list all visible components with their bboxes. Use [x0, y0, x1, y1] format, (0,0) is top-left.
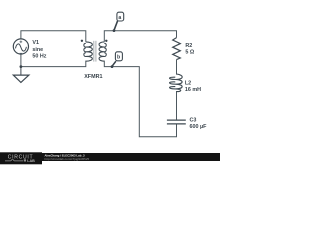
svg-text:R2: R2 — [185, 43, 192, 49]
transformer XFMR1 core — [94, 41, 96, 62]
wire top-left rail V1 to XFMR1 primary — [21, 31, 86, 42]
label C3 value — [190, 117, 208, 130]
transformer XFMR1 primary phase dot — [81, 40, 83, 42]
watermark logo box — [0, 152, 42, 164]
label V1 value — [32, 40, 46, 59]
svg-text:XFMR1: XFMR1 — [84, 74, 102, 80]
svg-text:b: b — [117, 55, 120, 61]
junction ground node — [20, 65, 23, 68]
resistor R2 — [173, 38, 181, 60]
svg-text:http://circuitlab.com/c7jqg9t4: http://circuitlab.com/c7jqg9t45525 — [45, 157, 90, 161]
svg-text:a: a — [118, 15, 121, 21]
ground — [13, 67, 29, 83]
transformer XFMR1 secondary coil — [99, 42, 106, 62]
label L2 value — [185, 80, 201, 93]
voltage source V1 — [13, 39, 28, 54]
svg-text:sine: sine — [32, 47, 43, 53]
svg-text:LAB: LAB — [27, 159, 35, 163]
watermark logo CIRCUIT LAB — [5, 155, 35, 164]
wire L2 to C3 — [176, 91, 178, 120]
svg-text:50 Hz: 50 Hz — [32, 54, 46, 60]
wire top-right rail XFMR1 secondary to R2 — [104, 31, 176, 42]
svg-text:V1: V1 — [32, 40, 39, 46]
inductor L2 — [170, 74, 183, 92]
svg-text:5 Ω: 5 Ω — [185, 50, 194, 56]
transformer XFMR1 primary coil — [84, 42, 92, 62]
svg-text:16 mH: 16 mH — [185, 87, 201, 93]
wire node b rail XFMR1 secondary to right loop — [104, 61, 176, 136]
capacitor C3 — [167, 120, 186, 124]
svg-text:600 µF: 600 µF — [190, 124, 208, 130]
node b flag — [111, 52, 123, 68]
watermark bar — [0, 153, 220, 161]
label R2 value — [185, 43, 194, 56]
node a flag — [113, 12, 124, 32]
wire R2 to L2 — [176, 60, 178, 75]
svg-text:C3: C3 — [190, 117, 197, 123]
transformer XFMR1 secondary phase dot — [105, 40, 107, 42]
svg-text:L2: L2 — [185, 80, 191, 86]
wire bottom-left rail V1 to XFMR1 primary — [21, 54, 86, 66]
